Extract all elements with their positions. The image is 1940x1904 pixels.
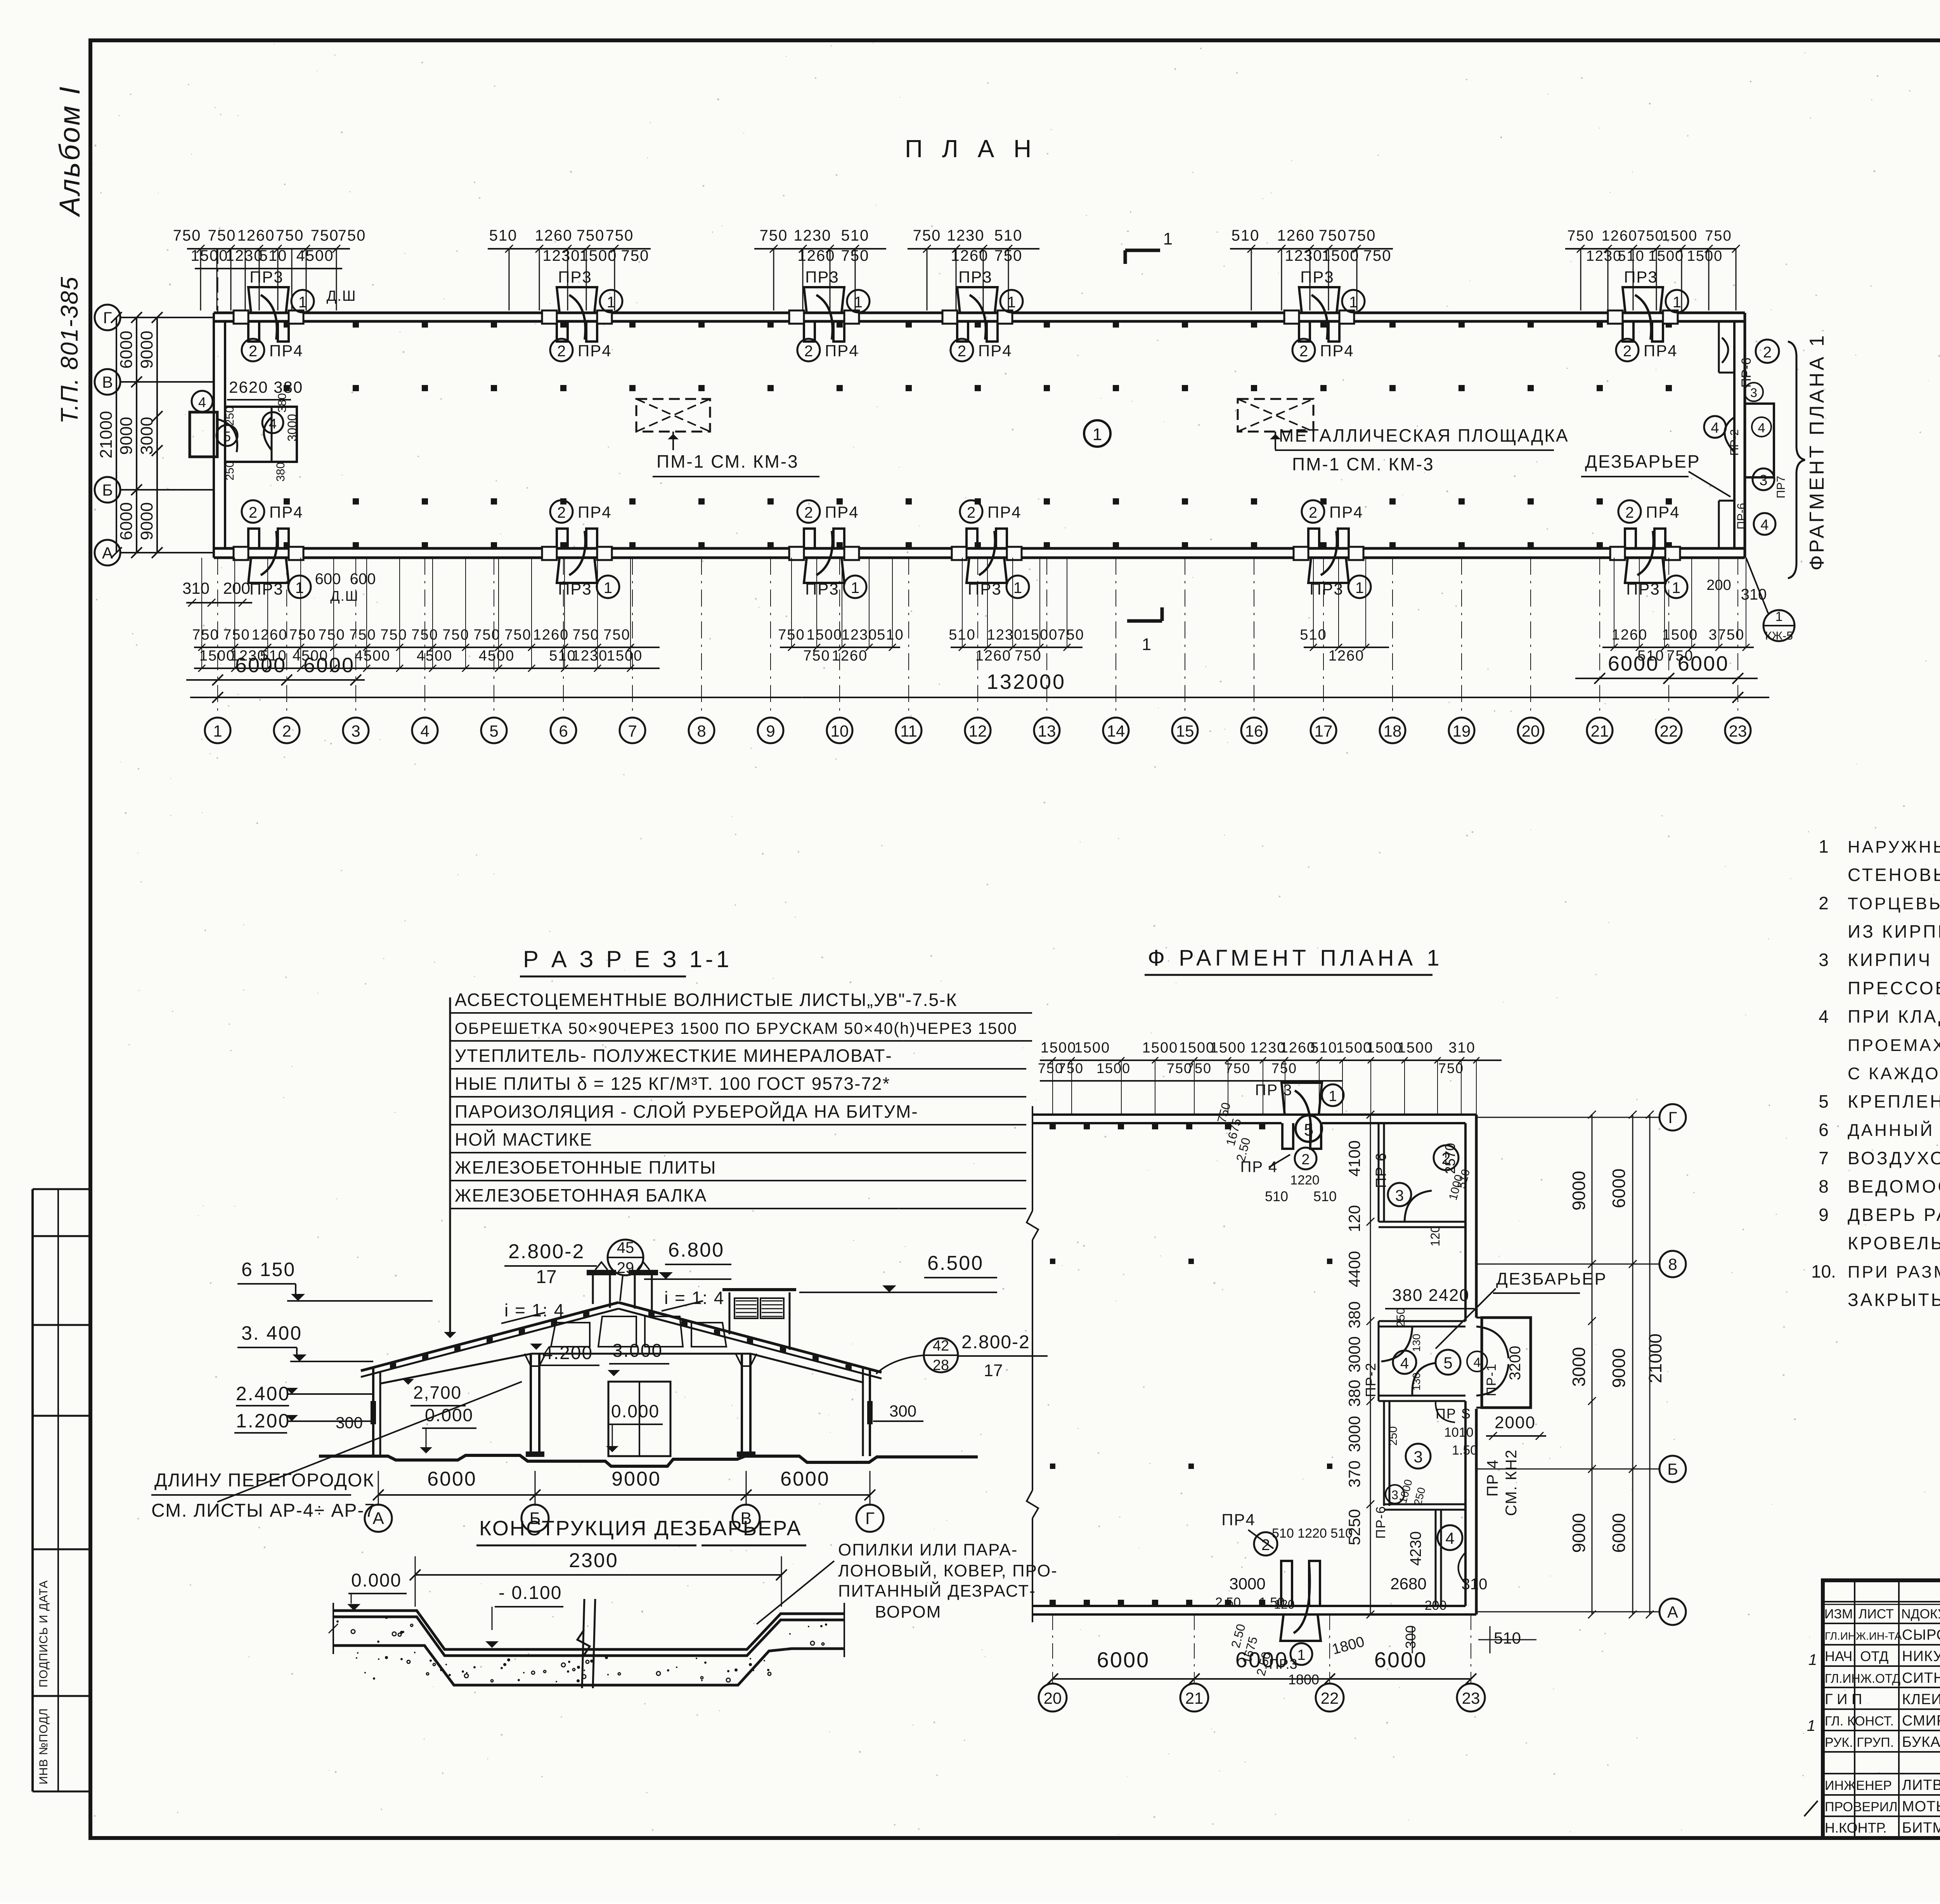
svg-text:ИНВ №ПОДЛ: ИНВ №ПОДЛ	[37, 1708, 50, 1784]
svg-text:3000: 3000	[137, 417, 156, 455]
svg-text:3000: 3000	[285, 414, 299, 441]
svg-text:1230: 1230	[842, 627, 878, 643]
svg-text:КРОВЕЛЬНОЙ СТАЛЬЮ ПО АСБЕ: КРОВЕЛЬНОЙ СТАЛЬЮ ПО АСБЕСТУ.	[1848, 1233, 1940, 1253]
label PR4 / mark 2 (top gate 6)	[1616, 339, 1639, 361]
svg-text:6000: 6000	[1608, 652, 1659, 675]
section cut mark 1 (bottom)	[1127, 619, 1162, 623]
svg-text:ЖЕЛЕЗОБЕТОННЫЕ ПЛИТЫ: ЖЕЛЕЗОБЕТОННЫЕ ПЛИТЫ	[455, 1157, 717, 1177]
svg-text:750: 750	[208, 227, 236, 244]
svg-text:750: 750	[913, 227, 941, 244]
svg-text:ПР4: ПР4	[1221, 1510, 1256, 1529]
svg-text:250: 250	[223, 461, 236, 480]
fragment right wall	[1475, 1115, 1478, 1318]
svg-text:310: 310	[1741, 586, 1767, 603]
svg-text:1230: 1230	[572, 648, 608, 664]
svg-text:510: 510	[1313, 1188, 1337, 1204]
svg-text:МЕТАЛЛИЧЕСКАЯ ПЛОЩАДКА: МЕТАЛЛИЧЕСКАЯ ПЛОЩАДКА	[1279, 425, 1569, 446]
svg-text:750: 750	[473, 627, 500, 643]
svg-text:9000: 9000	[137, 331, 156, 369]
section axis circles A B V G	[365, 1505, 392, 1532]
svg-text:2: 2	[557, 343, 566, 360]
svg-text:380 2420: 380 2420	[1392, 1286, 1470, 1305]
svg-text:6000: 6000	[780, 1468, 830, 1490]
svg-text:750: 750	[1225, 1060, 1251, 1076]
svg-text:2300: 2300	[569, 1549, 618, 1572]
svg-text:ПР4: ПР4	[825, 342, 859, 360]
label PR4 / mark 2 (bottom gate 5)	[1302, 500, 1324, 523]
svg-text:ПР4: ПР4	[978, 342, 1012, 360]
svg-text:750: 750	[1057, 627, 1084, 643]
svg-text:ЗАКРЫТЬ ДЕРЕВЯННОЙ РЕШЕТКО: ЗАКРЫТЬ ДЕРЕВЯННОЙ РЕШЕТКОЙ.	[1848, 1290, 1940, 1310]
label PR4 / mark 2 (bottom gate 2)	[550, 500, 573, 523]
svg-text:ПР4: ПР4	[269, 503, 303, 521]
svg-text:42: 42	[933, 1338, 949, 1354]
gate unit top wall #3	[804, 321, 815, 342]
svg-text:750: 750	[1186, 1060, 1212, 1076]
svg-text:ЛИСТ: ЛИСТ	[1859, 1607, 1894, 1621]
svg-text:Д.Ш: Д.Ш	[330, 588, 359, 604]
svg-text:1: 1	[1808, 1651, 1817, 1668]
svg-text:310: 310	[1462, 1576, 1488, 1593]
svg-text:ПР3: ПР3	[249, 580, 284, 598]
svg-text:750: 750	[577, 227, 605, 244]
svg-text:Г: Г	[1668, 1108, 1677, 1127]
svg-text:1500: 1500	[1142, 1040, 1178, 1056]
svg-text:1260: 1260	[1602, 228, 1638, 244]
svg-text:9000: 9000	[1569, 1513, 1589, 1553]
fragment brace at right end of plan	[1788, 342, 1805, 578]
interior column dots row V	[284, 385, 290, 391]
svg-text:3: 3	[1759, 472, 1767, 489]
svg-text:2,700: 2,700	[413, 1382, 462, 1403]
svg-text:ПР4: ПР4	[578, 342, 612, 360]
svg-text:6: 6	[1819, 1120, 1829, 1140]
label PR4 / mark 2 (top gate 3)	[797, 339, 820, 361]
svg-text:ПР3: ПР3	[1624, 268, 1658, 286]
svg-text:3000: 3000	[1345, 1416, 1363, 1452]
svg-text:1230: 1230	[1586, 248, 1622, 264]
right end tambour rooms	[1718, 321, 1720, 373]
section truss gable openings	[551, 1323, 590, 1347]
svg-text:510: 510	[841, 227, 870, 244]
svg-text:750: 750	[338, 227, 366, 244]
svg-text:750: 750	[1567, 228, 1594, 244]
dezbarrier callout leader	[757, 1561, 834, 1624]
svg-text:1: 1	[1297, 1647, 1305, 1663]
svg-text:2: 2	[1819, 893, 1829, 913]
svg-text:1: 1	[1163, 229, 1173, 248]
KZh-5 callout circle	[1763, 610, 1794, 641]
svg-text:750: 750	[803, 648, 830, 664]
svg-text:ОБРЕШЕТКА 50×90ЧЕРЕЗ 1500 ПО: ОБРЕШЕТКА 50×90ЧЕРЕЗ 1500 ПО БРУСКАМ 50×…	[455, 1019, 1017, 1037]
svg-text:3200: 3200	[1507, 1346, 1524, 1380]
fragment tambour door arcs	[1381, 1327, 1412, 1361]
svg-text:750: 750	[349, 627, 376, 643]
svg-text:4400: 4400	[1345, 1251, 1363, 1287]
svg-text:ГЛ.ИНЖ.ОТД: ГЛ.ИНЖ.ОТД	[1825, 1672, 1900, 1686]
section roof monitor with louvres	[722, 1288, 796, 1291]
gate unit bottom wall #1	[248, 529, 259, 548]
svg-text:380: 380	[1345, 1380, 1363, 1407]
svg-text:СИТНОВ В.А.: СИТНОВ В.А.	[1902, 1670, 1940, 1686]
svg-text:КОНСТРУКЦИЯ ДЕЗБАРЬЕРА: КОНСТРУКЦИЯ ДЕЗБАРЬЕРА	[479, 1517, 802, 1540]
svg-text:2570: 2570	[1442, 1143, 1458, 1174]
svg-text:2: 2	[967, 504, 975, 521]
svg-text:750: 750	[1319, 227, 1347, 244]
left margin stamp boxes	[33, 1188, 90, 1190]
svg-text:6000: 6000	[1609, 1169, 1629, 1208]
svg-text:300: 300	[1403, 1625, 1419, 1649]
svg-text:СМ. КН2: СМ. КН2	[1503, 1449, 1520, 1516]
label PM-1 sm. KM-3 (left)	[672, 432, 674, 450]
svg-text:НИКУЛИН В.С.: НИКУЛИН В.С.	[1902, 1648, 1940, 1665]
svg-text:370: 370	[1345, 1460, 1363, 1488]
svg-text:ПР4: ПР4	[987, 503, 1022, 521]
elevation 4.200	[530, 1344, 542, 1350]
svg-text:КЖ-5: КЖ-5	[1765, 629, 1793, 642]
svg-text:29: 29	[617, 1259, 634, 1276]
svg-text:ПР4: ПР4	[1320, 342, 1354, 360]
svg-text:1: 1	[1673, 294, 1681, 311]
svg-text:8: 8	[697, 722, 706, 740]
svg-text:2: 2	[1309, 504, 1317, 521]
svg-text:1: 1	[1093, 425, 1102, 444]
svg-text:ПР-1: ПР-1	[1484, 1363, 1499, 1396]
svg-text:750: 750	[572, 627, 599, 643]
svg-text:750: 750	[606, 227, 634, 244]
svg-text:120: 120	[1428, 1226, 1442, 1246]
svg-text:310: 310	[182, 579, 210, 597]
right end mid tambour	[1745, 404, 1774, 477]
svg-text:0.000: 0.000	[611, 1401, 660, 1421]
svg-text:4: 4	[1400, 1355, 1409, 1372]
svg-text:1500: 1500	[1041, 1040, 1077, 1056]
svg-text:КЛЕИН Д.С.: КЛЕИН Д.С.	[1902, 1691, 1940, 1708]
svg-text:22: 22	[1321, 1689, 1339, 1707]
svg-text:ЖЕЛЕЗОБЕТОННАЯ БАЛКА: ЖЕЛЕЗОБЕТОННАЯ БАЛКА	[455, 1185, 707, 1205]
svg-text:Г: Г	[103, 309, 112, 327]
svg-text:2: 2	[1623, 343, 1632, 360]
svg-text:9000: 9000	[137, 502, 156, 540]
fragment mid tambour partitions	[1379, 1320, 1465, 1322]
svg-text:ПРЕССОВАНИЯ. МРЗ НЕ НИ: ПРЕССОВАНИЯ. МРЗ НЕ НИЖЕ 25.	[1848, 978, 1940, 998]
svg-text:ПРОЕМАХ АНТИСЕПТИРОВАННЫЕ Д: ПРОЕМАХ АНТИСЕПТИРОВАННЫЕ ДЕРЕВЯННЫЕ ПРО…	[1848, 1036, 1940, 1055]
svg-text:21000: 21000	[97, 411, 116, 458]
svg-text:750: 750	[276, 227, 304, 244]
svg-text:ИЗ КИРПИЧА МАРКИ 75 НА РА: ИЗ КИРПИЧА МАРКИ 75 НА РАСТВОРЕ МАРКИ 25…	[1848, 921, 1940, 942]
svg-text:ПАРОИЗОЛЯЦИЯ - СЛОЙ РУБЕРОЙДА: ПАРОИЗОЛЯЦИЯ - СЛОЙ РУБЕРОЙДА НА БИТУМ-	[455, 1101, 918, 1122]
svg-text:ИНЖЕНЕР: ИНЖЕНЕР	[1825, 1778, 1892, 1793]
left tambour room marks 4,5,4	[192, 391, 213, 412]
svg-text:17: 17	[1315, 722, 1333, 740]
section roof slopes	[361, 1302, 618, 1371]
svg-text:9000: 9000	[1569, 1171, 1589, 1210]
mark circle 42/28 + 2.800-2 17 right	[924, 1338, 958, 1372]
svg-text:4: 4	[420, 722, 429, 740]
label PR4 / mark 2 (bottom gate 6)	[1618, 500, 1641, 523]
section right wall	[869, 1369, 871, 1456]
svg-text:130: 130	[1410, 1373, 1422, 1391]
svg-text:ГЛ.ИНЖ.ИН-ТА: ГЛ.ИНЖ.ИН-ТА	[1825, 1630, 1902, 1642]
interior column dots row B	[284, 498, 290, 505]
svg-text:20: 20	[1044, 1689, 1062, 1707]
svg-text:1: 1	[1355, 579, 1364, 597]
svg-text:8: 8	[1819, 1176, 1829, 1197]
svg-text:2: 2	[557, 504, 566, 521]
svg-text:1: 1	[213, 722, 222, 740]
svg-text:А: А	[1667, 1603, 1678, 1621]
svg-text:СТЕНОВЫХ ПАНЕЛЕЙ ПО СЕРИИ: СТЕНОВЫХ ПАНЕЛЕЙ ПО СЕРИИ 1.832-2.	[1848, 865, 1940, 885]
svg-text:1: 1	[1819, 836, 1829, 857]
col-1 axis dashed line up	[217, 248, 218, 313]
svg-text:Б: Б	[1667, 1460, 1678, 1478]
fragment room small 3 mark	[1386, 1485, 1404, 1503]
svg-text:8: 8	[1668, 1255, 1677, 1273]
svg-text:600: 600	[315, 571, 341, 588]
svg-text:ПР4: ПР4	[1644, 342, 1678, 360]
svg-text:Р А З Р Е З 1-1: Р А З Р Е З 1-1	[523, 946, 732, 972]
svg-text:2: 2	[958, 343, 966, 360]
svg-text:4230: 4230	[1407, 1531, 1424, 1566]
svg-text:1500: 1500	[1398, 1040, 1434, 1056]
svg-text:300: 300	[889, 1402, 916, 1420]
svg-text:3750: 3750	[1709, 627, 1745, 643]
svg-text:ГЛ. КОНСТ.: ГЛ. КОНСТ.	[1825, 1714, 1894, 1729]
svg-text:4500: 4500	[355, 648, 391, 664]
fragment tambour room marks 4 5 4	[1393, 1351, 1416, 1374]
svg-text:2: 2	[1625, 504, 1634, 521]
svg-text:- 0.100: - 0.100	[499, 1583, 562, 1603]
svg-text:ПМ-1 СМ. КМ-3: ПМ-1 СМ. КМ-3	[1292, 454, 1434, 474]
plan top wall (axis G)	[214, 312, 1745, 314]
svg-text:7: 7	[628, 722, 637, 740]
ventilation platform dashed box left (PM-1)	[636, 399, 710, 432]
svg-text:9000: 9000	[611, 1468, 661, 1490]
svg-text:ОПИЛКИ ИЛИ ПАРА-: ОПИЛКИ ИЛИ ПАРА-	[838, 1540, 1018, 1559]
section chimney 2	[629, 1270, 658, 1275]
scan speckle noise	[1132, 401, 1133, 402]
svg-text:НАЧ. ОТД: НАЧ. ОТД	[1825, 1648, 1888, 1664]
fragment marks room 2/3 top	[1388, 1183, 1411, 1206]
svg-text:22: 22	[1660, 722, 1678, 740]
section roof purlin ticks	[390, 1363, 396, 1368]
svg-text:ТОРЦЕВЫЕ И ВНУТРЕННИЕ СТЕН: ТОРЦЕВЫЕ И ВНУТРЕННИЕ СТЕНЫ И ПЕРЕГОРОДК…	[1848, 894, 1940, 913]
section cut mark 1 (top)	[1125, 249, 1160, 252]
svg-text:2620 380: 2620 380	[229, 378, 303, 396]
svg-text:380: 380	[276, 393, 289, 413]
svg-text:П Л А Н: П Л А Н	[905, 135, 1038, 163]
svg-text:28: 28	[933, 1357, 949, 1373]
label Metallicheskaya ploshchadka PM-1 sm. KM-3	[1275, 432, 1276, 449]
svg-text:750: 750	[223, 627, 250, 643]
svg-text:ПР4: ПР4	[1329, 503, 1363, 521]
svg-text:С КАЖДОЙ СТОРОНЫ ДЛЯ КРЕ: С КАЖДОЙ СТОРОНЫ ДЛЯ КРЕПЛЕНИЯ ДВЕРНЫХ К…	[1848, 1063, 1940, 1083]
fragment bottom wall	[1032, 1605, 1465, 1607]
svg-text:6 150: 6 150	[241, 1259, 296, 1280]
svg-text:7: 7	[1819, 1148, 1829, 1168]
svg-text:5: 5	[223, 428, 231, 444]
svg-text:1.50: 1.50	[1452, 1443, 1478, 1458]
svg-text:1260: 1260	[1612, 627, 1648, 643]
svg-text:6000: 6000	[235, 654, 286, 677]
svg-text:СЫРОВ Н.С.: СЫРОВ Н.С.	[1902, 1627, 1940, 1643]
svg-text:4: 4	[1711, 420, 1719, 436]
svg-text:6000: 6000	[117, 502, 136, 540]
svg-text:3000: 3000	[1569, 1347, 1589, 1387]
svg-text:ДВЕРЬ РАСХОДНОЙ АПТЕКИ О: ДВЕРЬ РАСХОДНОЙ АПТЕКИ ОБИТЬ С 2Х СТОРОН	[1848, 1205, 1940, 1225]
svg-text:1230: 1230	[794, 227, 831, 244]
svg-text:1230: 1230	[987, 627, 1023, 643]
svg-text:БИТМАН: БИТМАН	[1902, 1820, 1940, 1836]
svg-text:1500: 1500	[1662, 228, 1698, 244]
svg-text:NДОКУМЕНТ: NДОКУМЕНТ	[1901, 1607, 1940, 1621]
svg-text:750: 750	[1348, 227, 1376, 244]
svg-text:А: А	[102, 544, 113, 562]
svg-text:НОЙ МАСТИКЕ: НОЙ МАСТИКЕ	[455, 1129, 592, 1150]
svg-text:3: 3	[1395, 1187, 1404, 1204]
svg-text:ЛИТВИНОВА АГ: ЛИТВИНОВА АГ	[1902, 1777, 1940, 1793]
svg-text:19: 19	[1453, 722, 1471, 740]
svg-text:ВЕДОМОСТЬ ПЕРЕМЫЧЕК СМ. Л: ВЕДОМОСТЬ ПЕРЕМЫЧЕК СМ. ЛИСТ АР- 1.	[1848, 1176, 1940, 1197]
svg-text:310: 310	[1448, 1040, 1475, 1056]
svg-text:17: 17	[984, 1361, 1003, 1380]
svg-text:1260: 1260	[1277, 227, 1315, 244]
fragment wall panel marks	[1050, 1123, 1056, 1129]
svg-text:УТЕПЛИТЕЛЬ- ПОЛУЖЕСТКИЕ МИН: УТЕПЛИТЕЛЬ- ПОЛУЖЕСТКИЕ МИНЕРАЛОВАТ-	[455, 1046, 892, 1066]
svg-text:ПОДПИСЬ И ДАТА: ПОДПИСЬ И ДАТА	[37, 1580, 50, 1687]
section ceiling slab lines	[380, 1354, 532, 1384]
svg-text:6000: 6000	[1609, 1513, 1629, 1553]
title block left table verticals	[1854, 1580, 1855, 1838]
svg-text:4: 4	[1819, 1006, 1829, 1027]
svg-text:1010: 1010	[1444, 1425, 1474, 1440]
gate unit bottom wall #5	[1308, 529, 1319, 548]
fragment external tambour box	[1482, 1318, 1531, 1408]
svg-text:750: 750	[1438, 1060, 1464, 1076]
svg-text:4500: 4500	[479, 648, 515, 664]
svg-text:5250: 5250	[1345, 1509, 1363, 1545]
svg-text:300: 300	[336, 1413, 363, 1432]
svg-text:2: 2	[249, 504, 257, 521]
svg-text:4: 4	[1760, 517, 1769, 533]
svg-text:3: 3	[1413, 1448, 1422, 1466]
section center doorway	[608, 1382, 670, 1456]
svg-text:КИРПИЧ ПРИНЯТ ГЛИНЯНЫЙ О: КИРПИЧ ПРИНЯТ ГЛИНЯНЫЙ ОБЫКНОВЕННЫЙ ПЛАС…	[1848, 950, 1940, 970]
svg-text:510: 510	[259, 247, 288, 264]
gate unit top wall #4	[957, 321, 968, 342]
svg-text:3: 3	[1750, 386, 1757, 400]
svg-text:4: 4	[269, 416, 277, 432]
svg-text:6000: 6000	[303, 654, 355, 677]
fragment room 3 mid partitions	[1383, 1401, 1385, 1506]
svg-text:14: 14	[1107, 722, 1125, 740]
svg-text:21: 21	[1185, 1689, 1204, 1707]
svg-text:750: 750	[318, 627, 345, 643]
fragment interior dots	[1050, 1259, 1055, 1264]
svg-text:ДЕЗБАРЬЕР: ДЕЗБАРЬЕР	[1496, 1269, 1607, 1288]
svg-text:ПР3: ПР3	[805, 580, 839, 598]
svg-text:2.400: 2.400	[236, 1383, 290, 1405]
svg-text:ПР3: ПР3	[968, 580, 1002, 598]
svg-text:2: 2	[804, 343, 813, 360]
gate unit bottom wall #4	[967, 529, 977, 548]
svg-text:АСБЕСТОЦЕМЕНТНЫЕ ВОЛНИСТЫЕ: АСБЕСТОЦЕМЕНТНЫЕ ВОЛНИСТЫЕ ЛИСТЫ„УВ"-7.5…	[455, 990, 957, 1010]
svg-text:6000: 6000	[1678, 652, 1729, 675]
svg-text:1500: 1500	[1096, 1060, 1131, 1076]
svg-text:4100: 4100	[1345, 1140, 1363, 1176]
right end room 3	[1753, 468, 1774, 490]
svg-text:16: 16	[1245, 722, 1263, 740]
svg-text:10: 10	[831, 722, 849, 740]
svg-text:1: 1	[1807, 1717, 1815, 1734]
svg-text:9: 9	[766, 722, 775, 740]
label PR4 / mark 2 (top gate 2)	[550, 339, 573, 361]
right end room 4	[1754, 513, 1775, 535]
svg-text:2: 2	[1763, 344, 1772, 361]
svg-text:1260: 1260	[832, 648, 868, 664]
plan left dimension chains	[116, 317, 117, 553]
svg-text:132000: 132000	[987, 670, 1066, 694]
plan left axis circles G V B A	[95, 305, 120, 330]
svg-text:ПРОВЕРИЛ: ПРОВЕРИЛ	[1825, 1800, 1898, 1814]
svg-text:3.000: 3.000	[612, 1340, 663, 1361]
svg-text:ПРИ КЛАДКЕ КИРПИЧНЫХ СТЕН: ПРИ КЛАДКЕ КИРПИЧНЫХ СТЕН ЗАЛОЖИТЬ В ДВЕ…	[1848, 1006, 1940, 1027]
svg-text:250: 250	[1394, 1308, 1407, 1327]
svg-text:15: 15	[1176, 722, 1194, 740]
svg-text:БУКАШЕВА Г.Я: БУКАШЕВА Г.Я	[1902, 1734, 1940, 1750]
svg-text:1: 1	[295, 579, 304, 597]
svg-text:2: 2	[804, 504, 813, 521]
svg-text:В: В	[102, 373, 113, 391]
svg-text:ПР3: ПР3	[958, 268, 993, 286]
section left wall	[372, 1368, 374, 1456]
svg-text:ВОРОМ: ВОРОМ	[875, 1602, 941, 1621]
svg-text:ПР3: ПР3	[249, 268, 284, 286]
svg-text:ПР4: ПР4	[1646, 503, 1680, 521]
svg-text:4: 4	[1445, 1529, 1454, 1547]
svg-text:Г И П: Г И П	[1825, 1691, 1862, 1708]
svg-text:1500: 1500	[1648, 248, 1684, 264]
svg-text:510: 510	[1494, 1629, 1521, 1647]
svg-text:13: 13	[1038, 722, 1056, 740]
svg-text:750: 750	[1705, 228, 1732, 244]
svg-text:510: 510	[1310, 1040, 1337, 1056]
svg-text:120: 120	[1345, 1205, 1363, 1232]
gate unit top wall #2	[557, 321, 568, 342]
svg-text:ПР7: ПР7	[1775, 476, 1788, 498]
svg-text:130: 130	[1410, 1334, 1422, 1352]
svg-text:2: 2	[1299, 343, 1308, 360]
svg-text:1230: 1230	[947, 227, 985, 244]
svg-text:ПР4: ПР4	[825, 503, 859, 521]
svg-text:0.000: 0.000	[351, 1570, 402, 1591]
fragment room 4 bottom	[1435, 1510, 1437, 1606]
svg-text:2: 2	[282, 722, 291, 740]
svg-text:3000: 3000	[1229, 1575, 1265, 1593]
svg-text:ПР4: ПР4	[269, 342, 303, 360]
wall panel joint marks	[284, 321, 290, 328]
svg-text:750: 750	[380, 627, 407, 643]
svg-text:Д.Ш: Д.Ш	[326, 288, 356, 304]
svg-text:1500: 1500	[807, 627, 843, 643]
svg-text:380: 380	[1345, 1301, 1363, 1328]
svg-text:750: 750	[1271, 1060, 1297, 1076]
dim cluster above top gate #1	[200, 248, 201, 310]
svg-text:750: 750	[603, 627, 630, 643]
svg-text:2.800-2: 2.800-2	[508, 1240, 585, 1263]
gate unit top wall #6	[1623, 321, 1633, 342]
svg-text:4.200: 4.200	[542, 1343, 593, 1363]
